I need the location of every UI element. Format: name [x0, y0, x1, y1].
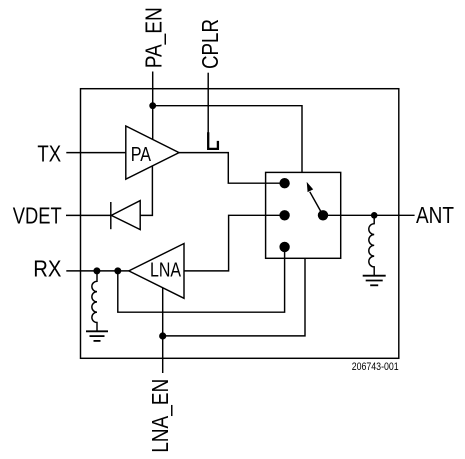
ground (ANT shunt) — [363, 276, 386, 286]
svg-text:206743-001: 206743-001 — [352, 361, 399, 373]
svg-text:VDET: VDET — [13, 203, 62, 229]
ANT wire — [323, 214, 414, 216]
outer box (device boundary) — [81, 89, 399, 359]
switch common dot — [318, 210, 328, 220]
VDET wire — [66, 214, 111, 216]
diode (VDET detector) — [110, 202, 112, 229]
svg-text:PA: PA — [131, 144, 152, 166]
switch port dot 2 — [279, 210, 289, 220]
svg-text:LNA_EN: LNA_EN — [147, 379, 173, 453]
inductor L2 — [369, 215, 374, 275]
wire PA output to switch port 1 — [179, 153, 285, 184]
coupler symbol — [208, 132, 218, 149]
ground (RX shunt) — [86, 331, 108, 341]
wire RX bypass to switch port 3 — [118, 247, 285, 312]
amplifier LNA — [129, 244, 184, 299]
wire diode to PA output edge — [140, 166, 152, 216]
svg-text:PA_EN: PA_EN — [140, 7, 166, 68]
CPLR wire — [207, 73, 209, 133]
svg-text:TX: TX — [37, 140, 61, 166]
inductor L1 — [92, 271, 97, 331]
wire LNA_EN to switch — [163, 258, 305, 336]
junction dot LNA_EN — [159, 332, 166, 339]
LNA_EN wire — [162, 288, 164, 373]
wire LNA input from switch port 2 — [184, 215, 285, 271]
junction dot PA_EN — [149, 102, 156, 109]
junction dot RX 2 — [114, 267, 121, 274]
switch arm — [310, 192, 323, 215]
wire PA_EN to switch — [153, 106, 302, 173]
switch arrowhead — [307, 182, 314, 192]
switch port dot 1 — [279, 178, 289, 188]
PA_EN wire — [152, 72, 154, 140]
junction dot ANT — [371, 212, 378, 219]
amplifier PA — [126, 126, 179, 179]
svg-text:ANT: ANT — [416, 202, 454, 228]
svg-text:LNA: LNA — [150, 260, 182, 282]
switch S1 box — [266, 172, 341, 258]
switch port dot 3 — [279, 242, 289, 252]
svg-text:CPLR: CPLR — [197, 19, 223, 69]
TX wire — [66, 152, 126, 154]
svg-text:RX: RX — [33, 256, 61, 282]
RX wire — [66, 270, 129, 272]
junction dot RX 1 — [93, 267, 100, 274]
